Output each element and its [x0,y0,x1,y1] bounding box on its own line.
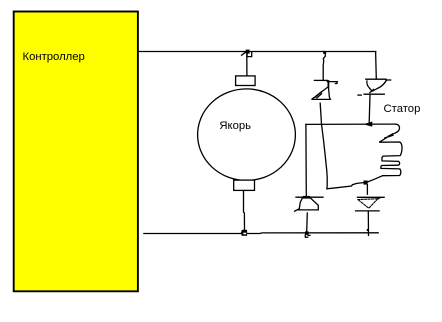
node B (motor bottom junction) [241,230,247,236]
thyristor D1 body [295,198,319,211]
wire D1 bottom lead [306,213,309,232]
brush bottom (motor) [234,180,255,190]
wire Q1 anode to stator bottom [320,103,364,189]
node E (VD2 to bottom bus) [367,229,369,231]
thyristor Q1 gate bar [314,79,327,81]
wire VD2 cathode lead [367,211,369,235]
motor armature M1 [198,89,296,181]
controller box U1 [14,12,138,292]
node F (D1 to bottom bus) [305,231,310,237]
diode D2 (top right) [358,79,391,95]
wire D2 cathode drop [368,95,371,123]
node C (thyristor branch on top bus) [323,51,326,54]
thyristor Q1 body [312,81,330,99]
svg-text:Якорь: Якорь [219,120,251,132]
wire top bus right drop [375,52,378,80]
svg-text:Статор: Статор [384,103,421,115]
wire motor bottom lead [244,191,245,230]
wire Q1 top lead [323,54,325,80]
svg-text:Контроллер: Контроллер [23,51,85,63]
node A (motor top junction) [242,50,252,57]
brush top (motor) [236,76,256,86]
wire D1 anode vertical [305,124,307,196]
wire top bus [139,51,376,53]
thyristor Q1 gate extension and hook [327,82,337,84]
node D (stator to VD2) [364,181,368,185]
stator winding L1 (hand-drawn coil) [368,124,402,182]
junction arrow into stator [363,122,372,127]
wire motor top lead [246,52,248,77]
wire bottom bus [144,232,378,235]
wire VD2 anode lead [366,185,368,195]
wire stator feed (horizontal) [306,123,396,125]
diode VD2 (bottom right) [356,197,385,211]
thyristor D1 cathode bar [296,196,323,198]
thyristor D1 junction blob [303,196,310,198]
